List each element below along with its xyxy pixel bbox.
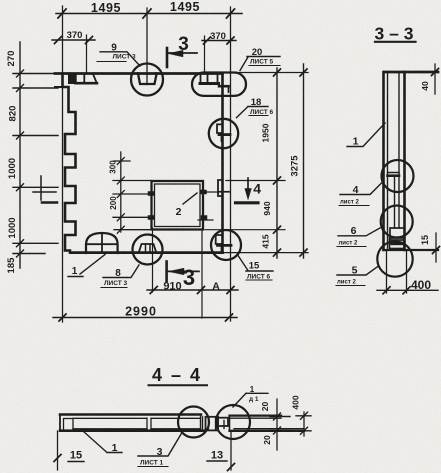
extension line right x230.5	[230, 7, 232, 321]
callout 1 leader (4-4)	[84, 432, 123, 453]
slab inner top lines	[73, 417, 200, 419]
left chain tick y243.3	[13, 240, 58, 247]
left chain tick y73.5	[13, 70, 58, 77]
callout 5 leader	[337, 266, 379, 275]
right edge mid notch	[218, 180, 223, 196]
callout 3 leader	[138, 433, 182, 457]
sheet label underlines 3-3	[339, 205, 369, 207]
right chain extension y180.5	[226, 180, 285, 182]
inner line below ledge	[394, 176, 396, 228]
left chain tick y187.3	[13, 184, 58, 191]
detail circle 4	[382, 160, 414, 192]
detail circle 9	[131, 64, 163, 96]
right edge key (detail 15)	[216, 235, 223, 244]
key blob detail 5	[390, 238, 405, 249]
opening dim chain x120.8	[120, 152, 122, 232]
right dims of 4-4: line x304	[303, 412, 305, 436]
right chain bottom ticks y252.6	[274, 249, 281, 256]
sheet label underlines	[97, 61, 126, 63]
right dims of 4-4: line x277	[276, 399, 278, 450]
callout 4 leader	[340, 182, 383, 195]
callout 2 leader	[183, 193, 197, 204]
bottom dim line 910 / A	[147, 289, 238, 291]
callout 9 leader	[100, 52, 140, 66]
dash to plate right upper	[207, 191, 230, 193]
right dim chain line x277	[276, 68, 278, 258]
callout 1 leader (3-3)	[347, 123, 385, 147]
opening inner rect	[155, 184, 201, 227]
dim line 3275 x301	[303, 64, 305, 258]
corner channel key	[201, 73, 218, 83]
top-right corner stadium detail circle	[192, 73, 246, 96]
extension from opening right edge down	[201, 230, 203, 318]
opening outer rect	[152, 181, 204, 230]
detail circle 8	[133, 235, 163, 265]
panel left edge with keys	[63, 74, 76, 253]
section 3-3 title underline	[375, 41, 416, 43]
dim 15 left	[57, 431, 59, 470]
panel top edge	[55, 72, 223, 75]
ext lines to 400 dim	[387, 250, 407, 293]
bottom edge extension right	[223, 252, 309, 254]
plate left upper	[148, 192, 154, 196]
tick slash mid	[143, 9, 151, 18]
left end block	[64, 419, 74, 431]
slab inner bottom lines	[73, 428, 200, 430]
dash through plate right lower	[198, 219, 213, 221]
datum cross symbol	[40, 176, 42, 200]
tick slash left	[58, 9, 66, 18]
detail circle 15	[211, 230, 241, 260]
wall top edge	[384, 71, 438, 74]
left chain tick y135.5	[13, 132, 58, 139]
left chain tick y253.5	[13, 250, 45, 257]
bottom dim line 2990	[53, 317, 237, 319]
joint small rect	[218, 418, 228, 426]
right ext for 15	[435, 233, 437, 262]
extension line left x62	[62, 6, 64, 322]
top dimension line 1495+1495	[56, 13, 242, 15]
corner block lower line overshoot	[55, 86, 69, 88]
slab left end cap	[59, 415, 61, 431]
callout 1 leader (loop)	[68, 255, 105, 277]
right edge key (detail 18)	[217, 124, 223, 133]
detail circle 5	[377, 241, 412, 276]
panel right edge	[221, 73, 224, 253]
section mark 4 right	[247, 178, 249, 192]
dim line 400	[377, 289, 438, 291]
corner step key	[219, 85, 229, 88]
slab break verticals	[147, 418, 151, 429]
bottom edge key (detail 8)	[139, 244, 156, 252]
wall left face	[382, 72, 385, 250]
joint box	[206, 417, 219, 431]
left slab end caps at joint	[201, 415, 203, 431]
right chain extension y229.7	[205, 229, 285, 231]
callout 8 leader	[103, 265, 139, 278]
dash through mid notch	[219, 191, 229, 193]
dim 370 right	[202, 40, 236, 42]
top-left corner channel slot	[76, 74, 97, 83]
right slab	[230, 414, 282, 416]
callout д1 leader	[233, 393, 268, 407]
section mark 3 bottom	[165, 262, 168, 282]
callout 6 leader	[338, 228, 380, 236]
plate right lower	[201, 216, 207, 220]
panel bottom edge	[71, 251, 223, 254]
left chain tick y88	[13, 85, 58, 92]
top-left corner solid block	[68, 74, 76, 85]
detail circle left (4-4)	[178, 407, 209, 438]
slab bottom line	[60, 429, 206, 432]
callout 18 leader	[237, 107, 269, 118]
lifting loop dome	[86, 233, 118, 253]
callout 20 leader	[240, 57, 280, 71]
section mark 3 top	[166, 48, 169, 67]
section 4-4 title underline	[149, 384, 208, 386]
dim 370 left	[52, 39, 95, 41]
tick slash right	[227, 9, 235, 18]
extension from opening left edge down	[152, 228, 154, 292]
detail circle right (4-4)	[216, 405, 250, 439]
extension line mid x147	[146, 8, 148, 85]
plate right upper	[201, 190, 207, 194]
right chain extension y72.5	[232, 72, 308, 74]
inner cavity ledge	[388, 172, 400, 174]
callout 15 leader	[238, 256, 273, 272]
key box detail 6	[390, 228, 405, 240]
wall bottom line	[384, 249, 439, 251]
right ext for 40	[434, 64, 436, 94]
left dim chain line x20	[19, 42, 21, 268]
top edge slot (detail 9)	[138, 73, 157, 84]
dim 13 right	[230, 431, 232, 470]
wall right face	[403, 72, 406, 250]
slab top line	[60, 413, 201, 416]
detail circle 18	[209, 119, 238, 148]
detail circle 6	[381, 206, 413, 238]
plate left lower	[148, 216, 154, 220]
sheet label underline 4-4	[138, 466, 168, 468]
scan noise overlay	[0, 0, 1, 1]
